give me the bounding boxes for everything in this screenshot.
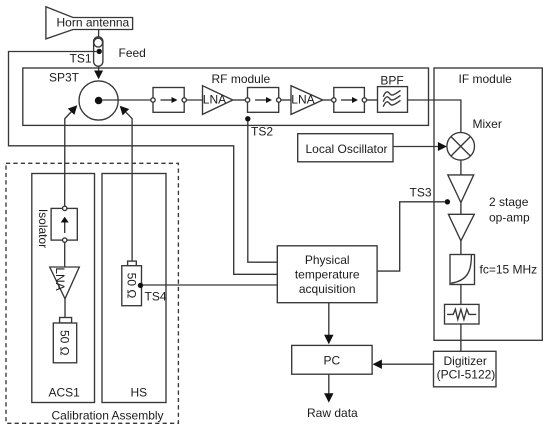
svg-text:Feed: Feed — [119, 46, 146, 60]
wire video amplifier to digitizer — [460, 324, 462, 351]
wire LPF to video amplifier — [460, 285, 462, 305]
wire mixer to op-amp 1 — [460, 160, 462, 175]
svg-text:Horn antenna: Horn antenna — [57, 16, 130, 30]
calibration assembly enclosure — [6, 163, 178, 423]
local oscillator — [298, 134, 393, 162]
switch SP3T — [79, 81, 118, 120]
svg-text:Digitizer: Digitizer — [444, 354, 487, 368]
isolator ACS1 — [51, 206, 77, 242]
resistor video amplifier — [445, 304, 480, 324]
op-amp 2 — [448, 214, 474, 241]
isolator U2 — [245, 88, 281, 113]
ACS1 enclosure — [32, 174, 95, 403]
load 50 ohm HS — [122, 261, 142, 306]
svg-text:op-amp: op-amp — [489, 211, 530, 225]
wire TS2 to acquisition — [248, 121, 277, 262]
mixer — [447, 133, 475, 161]
svg-text:LNA: LNA — [291, 92, 314, 106]
wire op-amp 2 to LPF — [460, 241, 462, 255]
svg-text:BPF: BPF — [380, 74, 403, 88]
isolator U3 — [332, 88, 367, 113]
wire SP3T to isolator 1 — [102, 99, 150, 101]
svg-text:Local Oscillator: Local Oscillator — [306, 142, 388, 156]
svg-text:(PCI-5122): (PCI-5122) — [437, 368, 496, 382]
amplifier LNA1 — [203, 86, 233, 115]
isolator U1 — [151, 88, 187, 113]
svg-text:ACS1: ACS1 — [49, 386, 81, 400]
svg-text:Physical: Physical — [305, 253, 350, 267]
svg-text:Isolator: Isolator — [36, 209, 50, 248]
acquisition unit — [277, 246, 377, 303]
svg-text:LNA: LNA — [53, 267, 67, 290]
svg-text:temperature: temperature — [295, 267, 360, 281]
wire isolator 2 to LNA2 — [281, 99, 291, 101]
wire LO to mixer (arrow) — [393, 142, 447, 151]
svg-text:TS3: TS3 — [410, 186, 432, 200]
amplifier LNA2 — [291, 86, 323, 115]
wire acquisition to PC (arrow) — [324, 303, 333, 345]
wire op-amp 1 to op-amp 2 — [460, 203, 462, 215]
svg-text:Mixer: Mixer — [473, 117, 502, 131]
node TS2 — [245, 116, 250, 121]
wire isolator 1 to LNA1 — [186, 99, 202, 101]
digitizer — [434, 351, 497, 387]
wire isolator 3 to BPF — [367, 99, 378, 101]
wire isolator to LNA — [64, 242, 66, 267]
wire LNA2 to isolator 3 — [323, 99, 332, 101]
horn antenna — [46, 7, 133, 39]
wire digitizer to PC (arrow) — [373, 360, 434, 369]
svg-text:fc=15 MHz: fc=15 MHz — [480, 263, 538, 277]
wire feed to SP3T (arrow) — [94, 66, 103, 79]
op-amp 1 — [448, 175, 474, 203]
amplifier LNA ACS1 — [50, 267, 80, 299]
node TS1 — [97, 49, 102, 54]
svg-text:TS1: TS1 — [70, 52, 92, 66]
wire BPF to mixer — [408, 100, 461, 132]
svg-text:HS: HS — [131, 386, 148, 400]
RF module enclosure — [23, 68, 429, 125]
svg-text:PC: PC — [324, 354, 341, 368]
svg-text:2 stage: 2 stage — [489, 195, 529, 209]
wire HS to SP3T (arrow) — [120, 106, 132, 261]
HS enclosure — [102, 174, 166, 403]
svg-text:acquisition: acquisition — [299, 282, 356, 296]
computer PC — [292, 345, 372, 374]
filter LPF — [450, 255, 475, 285]
wire TS3 to acquisition — [377, 202, 445, 271]
svg-text:TS2: TS2 — [251, 125, 273, 139]
svg-text:Calibration Assembly: Calibration Assembly — [52, 409, 164, 423]
svg-text:TS4: TS4 — [145, 290, 167, 304]
svg-text:IF module: IF module — [459, 72, 513, 86]
svg-text:Raw data: Raw data — [307, 406, 358, 420]
node TS3 — [445, 199, 450, 204]
wire horn to feed — [98, 30, 100, 37]
label 2 stage op-amp — [489, 195, 530, 225]
wire TS4 to acquisition — [143, 284, 278, 286]
wire LNA1 to isolator 2 — [233, 99, 246, 101]
svg-text:50 Ω: 50 Ω — [124, 273, 138, 299]
svg-text:RF module: RF module — [212, 72, 271, 86]
wire TS1 to acquisition — [9, 52, 278, 275]
wire ACS1 to SP3T (arrow) — [65, 105, 78, 207]
svg-text:50 Ω: 50 Ω — [58, 330, 72, 356]
IF module enclosure — [434, 68, 542, 340]
feed waveguide — [94, 37, 103, 66]
svg-text:SP3T: SP3T — [49, 71, 80, 85]
svg-text:LNA: LNA — [203, 92, 226, 106]
wire PC to raw data (arrow) — [324, 374, 333, 402]
node TS4 — [138, 283, 143, 288]
filter BPF — [378, 87, 408, 113]
load 50 ohm ACS1 — [53, 318, 76, 363]
wire LNA to 50 ohm load — [64, 299, 66, 318]
